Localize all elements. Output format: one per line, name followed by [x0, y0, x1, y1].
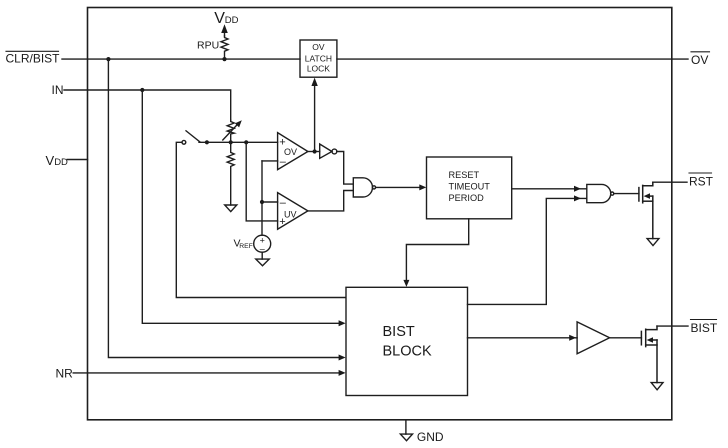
- svg-text:RPU: RPU: [197, 40, 219, 52]
- wire switch to BIST block: [176, 142, 345, 297]
- wire to UV+ input: [246, 142, 277, 221]
- svg-text:BLOCK: BLOCK: [383, 344, 432, 360]
- overline RST: [689, 172, 712, 174]
- junction node (IN to BIST block): [140, 88, 144, 92]
- svg-text:LATCH: LATCH: [305, 53, 332, 63]
- svg-text:V: V: [46, 153, 55, 168]
- ground (Q2 source): [651, 383, 663, 390]
- box OV LATCH LOCK: [300, 40, 337, 77]
- wire CLR/BIST row (left of latch box): [62, 58, 300, 60]
- svg-text:RESET: RESET: [449, 170, 480, 180]
- ground (below VREF): [256, 259, 269, 266]
- wire buffer to Q2 gate: [610, 337, 642, 339]
- junction node (divider tap): [229, 140, 233, 144]
- svg-text:IN: IN: [52, 83, 64, 97]
- wire VDD pin stub: [67, 159, 87, 161]
- svg-text:NR: NR: [56, 367, 74, 381]
- box RESET TIMEOUT PERIOD: [427, 157, 512, 219]
- node wire (monitored divider node to OV+ input): [199, 141, 278, 143]
- junction node (OV output to latch): [313, 149, 317, 153]
- wire reset timeout bottom to BIST block (arrow down): [403, 219, 468, 287]
- wire RST pin: [653, 181, 687, 183]
- wire CLR/BIST node to BIST block (arrow): [108, 59, 345, 360]
- junction node (CLR/BIST to BIST block): [106, 57, 110, 61]
- wire VREF to comparator reference inputs: [261, 161, 263, 235]
- overline CLR/BIST: [6, 50, 59, 52]
- ground (Q1 source): [647, 239, 659, 246]
- wire reset timeout to AND gate U2 top input (arrow): [512, 186, 587, 192]
- VDD supply arrow: [221, 24, 228, 36]
- svg-text:TIMEOUT: TIMEOUT: [449, 181, 491, 191]
- transistor Q1 (RST open-drain NMOS): [639, 182, 653, 238]
- svg-text:–: –: [280, 197, 287, 209]
- resistor (divider bottom): [227, 142, 234, 205]
- overline BIST: [691, 319, 717, 321]
- wire IN node to BIST block (arrow): [142, 90, 345, 326]
- wire BIST block output A to U2 bottom input (arrow): [468, 195, 587, 304]
- label VREF: [234, 237, 253, 250]
- wire UV output to AND gate U1 bottom input: [308, 191, 353, 211]
- wire OV output to inverter: [308, 151, 320, 153]
- wire U1 to reset timeout box (arrow): [376, 184, 427, 190]
- svg-text:DD: DD: [54, 157, 68, 168]
- ground (below divider resistor): [225, 205, 237, 212]
- wire BIST block output B to buffer (arrow): [468, 335, 578, 341]
- wire U2 to Q1 gate: [614, 193, 639, 195]
- pin label VDD (left): [46, 153, 69, 168]
- svg-text:GND: GND: [417, 430, 444, 444]
- svg-text:BIST: BIST: [691, 321, 718, 335]
- svg-text:–: –: [280, 156, 287, 168]
- svg-text:UV: UV: [284, 209, 297, 219]
- wire inverter to AND gate U1 top input: [337, 152, 354, 185]
- junction node (to UV+ input): [244, 140, 248, 144]
- svg-text:OV: OV: [691, 53, 708, 67]
- svg-text:DD: DD: [225, 15, 239, 26]
- wire UV- input: [262, 201, 278, 203]
- junction node (VREF to UV-): [260, 200, 264, 204]
- svg-text:CLR/BIST: CLR/BIST: [6, 51, 61, 65]
- buffer (BIST output driver): [577, 322, 610, 354]
- wire BIST pin: [657, 325, 688, 327]
- box BIST BLOCK: [346, 287, 468, 395]
- svg-text:OV: OV: [312, 42, 325, 52]
- comparator OV: [278, 133, 308, 170]
- source VREF: [254, 235, 271, 253]
- pin label CLR/BIST (active low): [6, 51, 61, 65]
- svg-text:LOCK: LOCK: [307, 63, 330, 73]
- variable resistor (adjustable divider top): [223, 120, 242, 142]
- overline OV: [691, 51, 710, 53]
- inverter after OV comparator: [320, 144, 337, 158]
- AND gate U2 (RST driver gate): [587, 184, 614, 202]
- comparator UV: [278, 193, 308, 230]
- resistor RPU: [221, 36, 228, 59]
- svg-text:V: V: [214, 10, 225, 27]
- svg-text:RST: RST: [689, 174, 714, 188]
- wire OV- input: [262, 160, 278, 162]
- junction node (RPU on CLR/BIST line): [222, 57, 226, 61]
- transistor Q2 (BIST open-drain NMOS): [641, 326, 657, 383]
- pin GND (bottom): [400, 420, 412, 441]
- AND gate U1 (NAND, comparator combiner): [353, 178, 375, 197]
- svg-text:BIST: BIST: [383, 324, 415, 340]
- svg-text:REF: REF: [239, 243, 253, 250]
- wire IN row (to variable resistor top): [64, 90, 231, 120]
- wire NR row into BIST block: [73, 370, 345, 376]
- switch S1 (BIST test switch): [182, 131, 209, 145]
- svg-text:OV: OV: [284, 147, 297, 157]
- wire latch-lock input (from OV comparator output node, arrow up): [311, 78, 317, 152]
- IC boundary box: [88, 8, 672, 420]
- svg-text:PERIOD: PERIOD: [449, 193, 485, 203]
- VDD supply label (top): [214, 10, 238, 27]
- wire VREF to ground: [261, 252, 263, 259]
- wire CLR/BIST row (right of latch box to OV pin): [337, 58, 688, 60]
